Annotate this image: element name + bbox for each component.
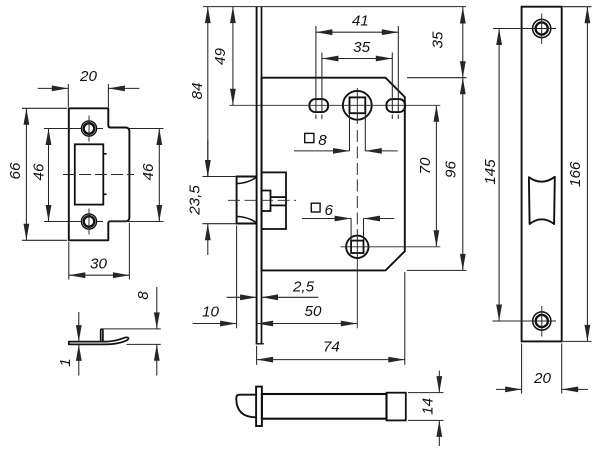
latch tail tongue: [271, 196, 287, 198]
svg-text:14: 14: [420, 398, 437, 415]
right oval hole: [386, 99, 405, 112]
dim 84 faceplate top to latch: [207, 7, 209, 177]
svg-text:96: 96: [442, 161, 459, 178]
strike cutout tab ticks: [103, 153, 106, 155]
horizontal centerline spindle: [230, 104, 441, 106]
dim 41 oval holes outer: [315, 26, 317, 112]
strike horizontal centerline: [63, 174, 134, 176]
dim 50 backset: [257, 323, 358, 325]
dim 70 spindle to bottom hole: [435, 105, 437, 247]
latch centerline: [228, 199, 296, 201]
svg-text:166: 166: [567, 161, 584, 187]
svg-text:84: 84: [189, 83, 206, 100]
svg-text:20: 20: [79, 68, 97, 85]
faceplate bottom screw hole: [533, 312, 551, 330]
svg-text:23,5: 23,5: [186, 185, 203, 216]
left oval hole: [309, 99, 328, 112]
svg-text:6: 6: [325, 202, 334, 219]
dim 96 body height: [407, 269, 467, 271]
dim 49 faceplate top to spindle: [232, 7, 234, 106]
strike screw hole bottom: [81, 214, 96, 229]
strike screw hole top: [81, 121, 96, 136]
latch bolt front view: [237, 177, 257, 224]
dim 35 oval holes inner: [321, 53, 323, 113]
dim square 6 label: [311, 203, 320, 212]
dim square 6 extension lines: [350, 219, 352, 241]
svg-text:50: 50: [305, 303, 322, 320]
dim 66 strike height: [22, 107, 67, 109]
dim 14 latch thickness: [408, 392, 444, 394]
faceplate front line: [256, 7, 258, 344]
dim 145 screw spacing: [498, 29, 500, 322]
strike vertical centerline: [88, 116, 90, 142]
svg-text:46: 46: [30, 163, 47, 180]
dim square 8 extension lines: [349, 113, 351, 151]
svg-text:8: 8: [135, 291, 152, 300]
vertical centerline spindle: [356, 88, 358, 124]
dim square 6 line: [302, 218, 351, 220]
svg-text:74: 74: [323, 339, 340, 356]
strike plate outline: [69, 108, 130, 240]
dim 46 strike left: [44, 128, 81, 130]
svg-text:35: 35: [353, 39, 370, 56]
dim 30 strike bottom: [68, 242, 70, 280]
bottom view latch bolt profile: [236, 395, 256, 418]
svg-text:70: 70: [417, 157, 434, 174]
svg-text:10: 10: [202, 303, 219, 320]
dim square 8 label: [305, 133, 314, 142]
bottom view tail rear cap: [387, 393, 406, 421]
dim 74 body depth: [256, 346, 258, 365]
bottom square hole 6mm: [351, 241, 363, 253]
top extension line faceplate: [203, 6, 466, 8]
bottom view latch tail: [262, 394, 387, 419]
dim 1 plate thickness: [78, 312, 80, 342]
strike side bent tab: [101, 329, 103, 341]
horizontal centerline bottom hole: [341, 246, 441, 248]
strike side view plate strip: [69, 337, 129, 344]
faceplate top screw hole: [533, 19, 551, 37]
dim 2,5 faceplate thickness: [227, 296, 257, 298]
dim 166 faceplate height: [563, 6, 592, 8]
dim 10 latch protrusion: [193, 323, 237, 325]
svg-text:49: 49: [212, 48, 229, 65]
dim 35 right faceplate-to-body: [407, 77, 467, 79]
svg-text:35: 35: [429, 31, 446, 48]
svg-text:46: 46: [140, 163, 157, 180]
svg-text:2,5: 2,5: [292, 278, 315, 295]
latch bevel curve bottom: [237, 216, 257, 222]
svg-text:30: 30: [90, 255, 107, 272]
dim square 8 line: [294, 150, 350, 152]
spindle square hole 8mm: [350, 97, 366, 113]
faceplate front view outline: [522, 7, 562, 342]
dim 8 tab height: [102, 328, 161, 330]
svg-text:41: 41: [352, 12, 369, 29]
faceplate latch window: [529, 177, 555, 224]
faceplate back line: [261, 7, 263, 344]
svg-text:66: 66: [7, 162, 24, 179]
latch bevel curve top: [237, 177, 257, 183]
bottom fixing hole circle: [346, 236, 368, 258]
dim 20 faceplate width: [521, 343, 523, 393]
faceplate bottom cap: [256, 343, 264, 345]
dim 23,5 latch height: [202, 176, 236, 178]
lock body outline: [262, 78, 405, 271]
svg-text:145: 145: [482, 159, 499, 185]
latch front extension line: [236, 226, 238, 329]
strike latch cutout: [75, 144, 104, 204]
svg-text:1: 1: [57, 358, 74, 366]
latch follower block: [262, 191, 271, 212]
svg-text:8: 8: [318, 132, 327, 149]
bottom view faceplate bar: [256, 387, 262, 426]
svg-text:20: 20: [533, 370, 551, 387]
dim 20 strike top: [67, 84, 69, 107]
latch housing box: [262, 172, 286, 229]
dim 46 strike right: [97, 128, 103, 130]
spindle hub circle: [343, 91, 372, 120]
